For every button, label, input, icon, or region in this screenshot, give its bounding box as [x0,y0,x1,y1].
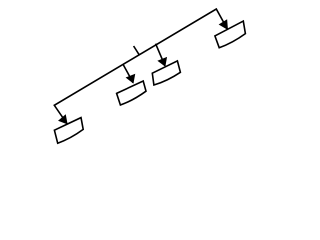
wire: drop to box 3 [156,44,165,66]
arrowhead into box 4 [220,20,228,29]
box 3 (middle-right node) [152,61,180,85]
box 4 (top-right node) [215,21,246,48]
arrowhead into box 3 [158,58,166,66]
wire: drop to box 2 [123,64,133,83]
box 2 (middle-left node) [117,81,146,105]
wire: parent stub tick [134,46,140,55]
arrowhead into box 2 [127,75,135,83]
box 1 (bottom-left node) [54,118,83,144]
wire: main rail with elbows at both ends [54,9,227,124]
arrowhead into box 1 [59,115,67,124]
